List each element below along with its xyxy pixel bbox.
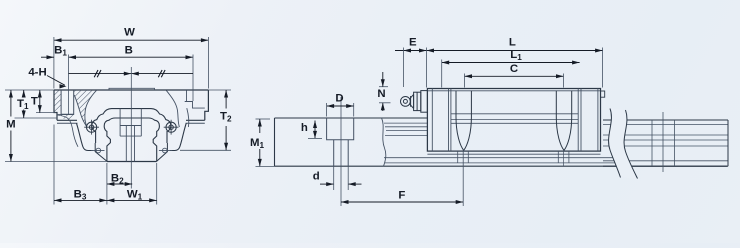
block arm bottom chamfer right xyxy=(157,143,168,161)
rail bottom edge xyxy=(107,161,157,163)
front view block body outline xyxy=(54,90,208,120)
front view block raised top strip xyxy=(109,88,155,90)
hatched section main tongue xyxy=(74,91,96,126)
dimension L xyxy=(427,50,603,52)
end cap lines right xyxy=(577,89,579,152)
front view block top edge xyxy=(54,89,208,91)
hatch below hole xyxy=(61,115,74,121)
svg-text:L1: L1 xyxy=(510,49,522,62)
block bottom lip line xyxy=(427,153,600,155)
dimension W1 xyxy=(156,163,158,205)
dimension B xyxy=(69,56,194,58)
svg-text:T: T xyxy=(31,96,38,108)
center clamp slot xyxy=(120,109,141,162)
rail lines under block xyxy=(384,157,620,159)
svg-text:W1: W1 xyxy=(127,189,143,202)
svg-text:F: F xyxy=(398,190,405,202)
block top band line xyxy=(427,90,600,92)
teardrop hole right xyxy=(556,91,571,151)
dimension F xyxy=(341,201,463,203)
hidden hole lines below block left xyxy=(457,151,459,163)
svg-text:4-H: 4-H xyxy=(28,67,46,79)
hole centerline xyxy=(340,97,342,206)
left block inner wall xyxy=(57,115,78,147)
dimension T1 xyxy=(15,117,58,119)
svg-text:D: D xyxy=(335,93,343,105)
svg-text:B2: B2 xyxy=(111,173,124,186)
center line xyxy=(130,67,132,189)
dimension M xyxy=(5,89,54,91)
rail right segment profile lines xyxy=(603,119,728,121)
rail through hole xyxy=(334,140,349,166)
end cap screw right xyxy=(164,120,179,135)
rail counterbore hole xyxy=(327,118,354,140)
svg-text:B3: B3 xyxy=(74,189,87,202)
left wing step line xyxy=(57,114,74,116)
dimension T2 xyxy=(208,89,231,91)
svg-text:N: N xyxy=(377,88,385,100)
end cap contour curves right half xyxy=(166,90,179,127)
svg-text:d: d xyxy=(313,171,320,183)
break curve 2 xyxy=(624,110,637,179)
grease nipple xyxy=(401,91,428,113)
svg-text:E: E xyxy=(409,37,417,49)
block arm outer edge left xyxy=(77,123,93,150)
arm bottom screw right xyxy=(159,150,172,152)
svg-text:T1: T1 xyxy=(17,98,29,111)
dimension W xyxy=(54,39,208,41)
dimension B3 xyxy=(53,125,55,205)
right face boss xyxy=(601,91,605,97)
svg-text:T2: T2 xyxy=(220,111,232,124)
block arm outer edge right xyxy=(170,123,186,150)
block internal horizontal lines xyxy=(451,113,578,115)
rail cross-section profile xyxy=(104,118,159,162)
svg-text:M: M xyxy=(6,119,16,131)
arm bottom screw left xyxy=(91,150,105,152)
svg-text:C: C xyxy=(510,63,518,75)
end cap screw left xyxy=(84,120,99,135)
front view block bottom seal lines xyxy=(57,119,77,121)
svg-text:L: L xyxy=(509,37,516,49)
rail right hole centerline xyxy=(662,112,664,172)
svg-text:M1: M1 xyxy=(250,137,265,150)
dimension T xyxy=(36,112,56,114)
teardrop hole left xyxy=(456,91,471,151)
rail seal transition curve xyxy=(382,118,386,166)
dimension E xyxy=(395,50,427,52)
rail profile lines under nipple xyxy=(384,122,427,124)
break curve 1 xyxy=(609,109,621,178)
hatch boundary curves xyxy=(85,90,97,126)
dimension L1 xyxy=(442,62,580,64)
rail right end edge xyxy=(727,120,729,166)
dimension N xyxy=(379,86,388,88)
hidden hole lines below block right xyxy=(557,151,559,163)
dimension d xyxy=(320,183,334,185)
svg-text:W: W xyxy=(124,27,135,39)
dimension C xyxy=(465,75,564,77)
hatched section left strip xyxy=(55,91,61,113)
svg-text:h: h xyxy=(301,122,308,134)
dimension B2 xyxy=(107,183,132,185)
bolt spacing dimension with equal marks xyxy=(69,73,194,75)
rail break band xyxy=(609,109,638,179)
rail right segment hole lines xyxy=(651,120,653,166)
svg-text:B1: B1 xyxy=(54,45,67,58)
block arm bottom chamfer left xyxy=(95,143,107,161)
end seal outer contour around rail xyxy=(92,109,171,143)
dimension M1 xyxy=(256,118,271,120)
dimension D xyxy=(327,105,354,107)
side view block outline xyxy=(427,89,600,152)
dimension h xyxy=(314,121,316,139)
4-H bolt hole channel xyxy=(61,90,74,114)
dimension B1 xyxy=(41,56,54,58)
end cap lines left xyxy=(431,89,433,152)
svg-text:B: B xyxy=(125,45,133,57)
side view rail left segment xyxy=(275,118,728,166)
